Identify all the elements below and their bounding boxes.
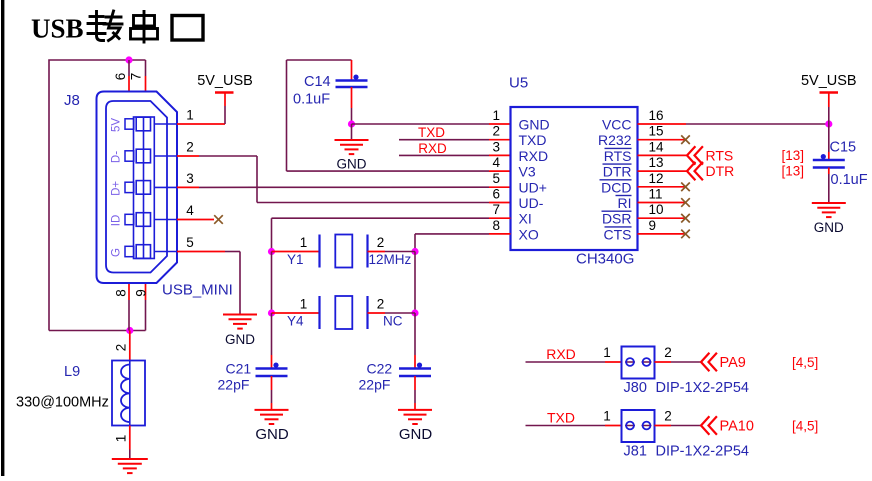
node junction VCC/C15 <box>825 120 832 127</box>
pin name DSR <box>602 211 632 227</box>
svg-text:14: 14 <box>649 139 665 154</box>
svg-text:GND: GND <box>399 426 433 443</box>
svg-text:DSR: DSR <box>602 211 632 227</box>
ground symbol under J8 pin5 <box>223 315 257 329</box>
no-connect X pin 10 <box>681 214 690 223</box>
svg-text:3: 3 <box>492 139 500 154</box>
wire usb shield top run <box>49 60 146 331</box>
svg-text:L9: L9 <box>64 364 80 380</box>
wire U5 XO pin8 to Y1 <box>415 234 511 252</box>
sheet border left bar <box>1 0 4 476</box>
wire C15 to GND <box>828 168 830 204</box>
pin name R232 <box>598 132 632 148</box>
svg-text:9: 9 <box>649 218 657 233</box>
wire XO column Y1 to Y4 <box>414 252 416 314</box>
ground symbol under C15 <box>812 203 846 217</box>
ground symbol under C22 <box>398 410 432 424</box>
wire C22 to GND <box>414 376 416 410</box>
svg-text:USB_MINI: USB_MINI <box>162 282 233 299</box>
wire Y4 pin2 <box>368 312 416 314</box>
wire junction to U5 GND pin1 <box>352 123 511 125</box>
svg-text:1: 1 <box>492 108 500 123</box>
svg-text:4: 4 <box>492 155 500 170</box>
svg-text:RXD: RXD <box>418 141 447 156</box>
svg-text:22pF: 22pF <box>359 377 391 393</box>
svg-text:CTS: CTS <box>604 226 632 242</box>
svg-text:15: 15 <box>649 124 664 139</box>
wire J8 pin2 (D-) to U5 UD- <box>177 156 511 203</box>
ic U5 body <box>511 107 638 250</box>
svg-text:D+: D+ <box>111 181 123 196</box>
wire Y1 pin2 <box>368 251 416 253</box>
svg-text:D-: D- <box>111 151 123 163</box>
wire Y4 pin1 <box>272 312 320 314</box>
svg-text:PA9: PA9 <box>720 355 746 371</box>
svg-text:GND: GND <box>814 220 844 235</box>
svg-text:TXD: TXD <box>418 125 445 140</box>
capacitor C15 <box>813 154 845 168</box>
power symbol 5V_USB right <box>820 93 839 125</box>
svg-text:5V_USB: 5V_USB <box>197 73 253 89</box>
svg-text:22pF: 22pF <box>218 377 250 393</box>
svg-text:Y1: Y1 <box>287 252 304 267</box>
title character chuan <box>131 10 158 44</box>
svg-text:330@100MHz: 330@100MHz <box>16 395 109 411</box>
svg-text:R232: R232 <box>598 132 632 148</box>
wire U5 pin 15 stub <box>638 139 686 141</box>
connector J8 body inner outline <box>106 101 167 273</box>
svg-text:UD+: UD+ <box>519 179 547 195</box>
no-connect X pin 11 <box>681 198 690 207</box>
wire J8 pin1 to 5V_USB <box>177 93 225 125</box>
wire XI column Y1 to Y4 <box>271 252 273 314</box>
svg-text:8: 8 <box>114 289 129 297</box>
svg-text:J8: J8 <box>64 92 80 109</box>
ground symbol under C14 <box>335 140 369 154</box>
svg-text:2: 2 <box>492 124 500 139</box>
connector J8 contact G <box>125 245 177 259</box>
connector J8 contact D+ <box>125 181 177 195</box>
svg-text:RTS: RTS <box>604 148 632 164</box>
svg-text:ID: ID <box>111 215 123 227</box>
no-connect X pin 15 <box>681 135 690 144</box>
svg-text:5: 5 <box>186 235 194 250</box>
svg-text:C15: C15 <box>830 140 857 156</box>
svg-text:GND: GND <box>255 426 289 443</box>
wire J8 pin 8 <box>128 283 130 331</box>
svg-text:USB: USB <box>31 14 84 44</box>
wire U5 pin 12 stub <box>638 186 686 188</box>
svg-text:3: 3 <box>186 171 194 186</box>
pin name CTS <box>604 226 632 242</box>
wire net TXD to J81 pin1 <box>526 425 622 427</box>
wire U5 pin 11 stub <box>638 202 686 204</box>
pin name VCC <box>602 117 632 133</box>
port chevrons PA9 <box>701 353 717 371</box>
ground symbol under L9 <box>112 459 148 473</box>
wire J8 pin 9 <box>145 283 147 331</box>
pin name RTS <box>604 148 632 164</box>
svg-text:XI: XI <box>519 211 532 227</box>
svg-text:1: 1 <box>186 108 194 123</box>
wire J8 pin3 (D+) to U5 UD+ <box>177 186 511 188</box>
svg-text:6: 6 <box>113 73 128 81</box>
svg-text:4: 4 <box>186 203 194 218</box>
pin name RI <box>616 195 632 211</box>
title character zhuan <box>88 11 122 41</box>
pin name DCD <box>600 179 632 195</box>
no-connect X pin 9 <box>681 230 690 239</box>
svg-text:DTR: DTR <box>603 164 632 180</box>
svg-text:9: 9 <box>134 289 149 297</box>
svg-text:UD-: UD- <box>519 195 544 211</box>
wire Y1 pin1 <box>272 251 320 253</box>
pin name DTR <box>603 164 632 180</box>
capacitor C21 <box>256 363 288 377</box>
svg-text:DIP-1X2-2P54: DIP-1X2-2P54 <box>656 380 750 396</box>
power symbol 5V_USB left <box>215 91 234 94</box>
svg-text:1: 1 <box>300 297 308 312</box>
svg-text:J80: J80 <box>624 380 647 396</box>
svg-text:1: 1 <box>300 235 308 250</box>
wire J80 pin2 to port PA9 <box>655 361 702 363</box>
svg-text:12: 12 <box>649 171 664 186</box>
port chevrons RTS <box>687 146 703 164</box>
svg-text:J81: J81 <box>624 444 647 460</box>
port chevrons PA10 <box>701 416 717 434</box>
connector J8 contact 5V <box>125 117 177 131</box>
svg-text:5V: 5V <box>111 118 123 132</box>
svg-text:G: G <box>111 248 123 257</box>
svg-text:XO: XO <box>519 226 539 242</box>
jumper J81 <box>622 410 655 442</box>
svg-text:2: 2 <box>377 235 385 250</box>
connector J8 contact ID <box>125 213 177 227</box>
svg-text:V3: V3 <box>519 164 536 180</box>
wire J8 pin 7 <box>145 60 147 91</box>
wire Y4 to C22 <box>414 313 416 369</box>
wire C14 to GND junction <box>351 87 353 124</box>
svg-text:GND: GND <box>225 332 255 347</box>
svg-text:RTS: RTS <box>706 147 734 163</box>
svg-text:1: 1 <box>114 435 129 443</box>
svg-text:5V_USB: 5V_USB <box>801 73 857 89</box>
wire U5 pin 10 stub <box>638 217 686 219</box>
svg-text:6: 6 <box>492 187 500 202</box>
svg-text:10: 10 <box>649 202 664 217</box>
svg-text:DCD: DCD <box>601 179 631 195</box>
svg-text:2: 2 <box>377 297 385 312</box>
wire C21 to GND <box>271 376 273 410</box>
wire J8 pin5 (G) to GND <box>177 252 240 315</box>
svg-text:RXD: RXD <box>519 148 549 164</box>
title character kou <box>172 16 203 41</box>
svg-text:[4,5]: [4,5] <box>792 355 818 370</box>
wire net TXD to U5 pin2 <box>399 139 511 141</box>
node junction pin6/top <box>125 56 132 63</box>
svg-text:GND: GND <box>337 157 367 172</box>
svg-text:2: 2 <box>114 344 129 352</box>
jumper J80 <box>622 347 655 379</box>
svg-text:[13]: [13] <box>781 164 804 179</box>
wire U5 V3 pin4 net to C14 <box>287 60 511 171</box>
svg-text:16: 16 <box>649 108 664 123</box>
ground symbol under C21 <box>255 410 289 424</box>
capacitor C22 <box>399 363 431 377</box>
svg-text:[4,5]: [4,5] <box>792 419 818 434</box>
capacitor C14 <box>336 75 368 88</box>
svg-text:2: 2 <box>664 345 672 360</box>
crystal Y1 <box>320 235 368 268</box>
svg-text:2: 2 <box>664 409 672 424</box>
svg-text:[13]: [13] <box>781 148 804 163</box>
svg-text:13: 13 <box>649 155 664 170</box>
wire L9 pin1 to GND <box>129 426 131 460</box>
svg-text:TXD: TXD <box>519 132 547 148</box>
svg-text:GND: GND <box>519 117 550 133</box>
svg-text:TXD: TXD <box>547 410 575 426</box>
svg-text:11: 11 <box>649 187 663 202</box>
svg-text:7: 7 <box>129 73 144 81</box>
svg-text:1: 1 <box>603 345 611 360</box>
wire junction to C15 <box>828 124 830 160</box>
connector J8 body outer outline <box>97 92 178 284</box>
svg-text:PA10: PA10 <box>720 419 754 435</box>
wire Y4 to C21 <box>271 313 273 369</box>
connector J8 contact D- <box>125 149 177 163</box>
node junction Y4 pin1 <box>268 309 275 316</box>
crystal Y4 <box>320 296 368 329</box>
wire U5 pin14 RTS stub <box>638 154 688 156</box>
svg-text:U5: U5 <box>509 75 528 92</box>
wire junction to L9 pin2 <box>129 331 131 361</box>
wire U5 VCC pin16 to 5V_USB <box>638 123 829 125</box>
wire J81 pin2 to port PA10 <box>655 425 702 427</box>
wire J8 pin4 (ID) no-connect <box>177 219 214 221</box>
svg-text:1: 1 <box>603 409 611 424</box>
node junction Y4 pin2 <box>411 309 418 316</box>
port chevrons DTR <box>687 162 703 180</box>
no-connect X pin 12 <box>681 183 690 192</box>
wire net RXD to U5 pin3 <box>399 154 511 156</box>
node junction pin8/L9 <box>126 327 133 334</box>
no-connect X on J8 pin4 <box>214 215 223 224</box>
node junction Y1 pin2 <box>411 248 418 255</box>
svg-text:RI: RI <box>618 195 632 211</box>
svg-text:DIP-1X2-2P54: DIP-1X2-2P54 <box>656 444 750 460</box>
svg-text:NC: NC <box>383 314 403 329</box>
svg-text:12MHz: 12MHz <box>369 252 412 267</box>
node junction Y1 pin1 <box>268 248 275 255</box>
svg-text:8: 8 <box>492 218 500 233</box>
wire usb shield bottom run <box>49 330 146 332</box>
svg-text:C22: C22 <box>367 361 393 377</box>
svg-text:DTR: DTR <box>706 163 735 179</box>
svg-text:CH340G: CH340G <box>576 251 634 268</box>
connector J8 contact rail <box>134 117 155 259</box>
svg-text:Y4: Y4 <box>287 314 304 329</box>
svg-text:C14: C14 <box>304 74 331 90</box>
svg-text:2: 2 <box>186 140 194 155</box>
wire net RXD to J80 pin1 <box>526 361 622 363</box>
wire junction down to ground <box>351 124 353 140</box>
svg-text:5: 5 <box>492 171 500 186</box>
wire U5 pin13 DTR stub <box>638 170 688 172</box>
svg-text:C21: C21 <box>226 361 252 377</box>
wire U5 XI pin7 to Y1 <box>272 218 511 251</box>
inductor L9 <box>112 361 145 426</box>
wire U5 pin 9 stub <box>638 233 686 235</box>
svg-text:7: 7 <box>492 202 500 217</box>
svg-text:VCC: VCC <box>602 117 632 133</box>
svg-text:0.1uF: 0.1uF <box>831 172 868 188</box>
node junction C14/GND/U5 pin1 <box>348 120 355 127</box>
wire J8 pin 6 <box>128 60 130 91</box>
svg-text:RXD: RXD <box>546 346 576 362</box>
svg-text:0.1uF: 0.1uF <box>293 92 330 108</box>
